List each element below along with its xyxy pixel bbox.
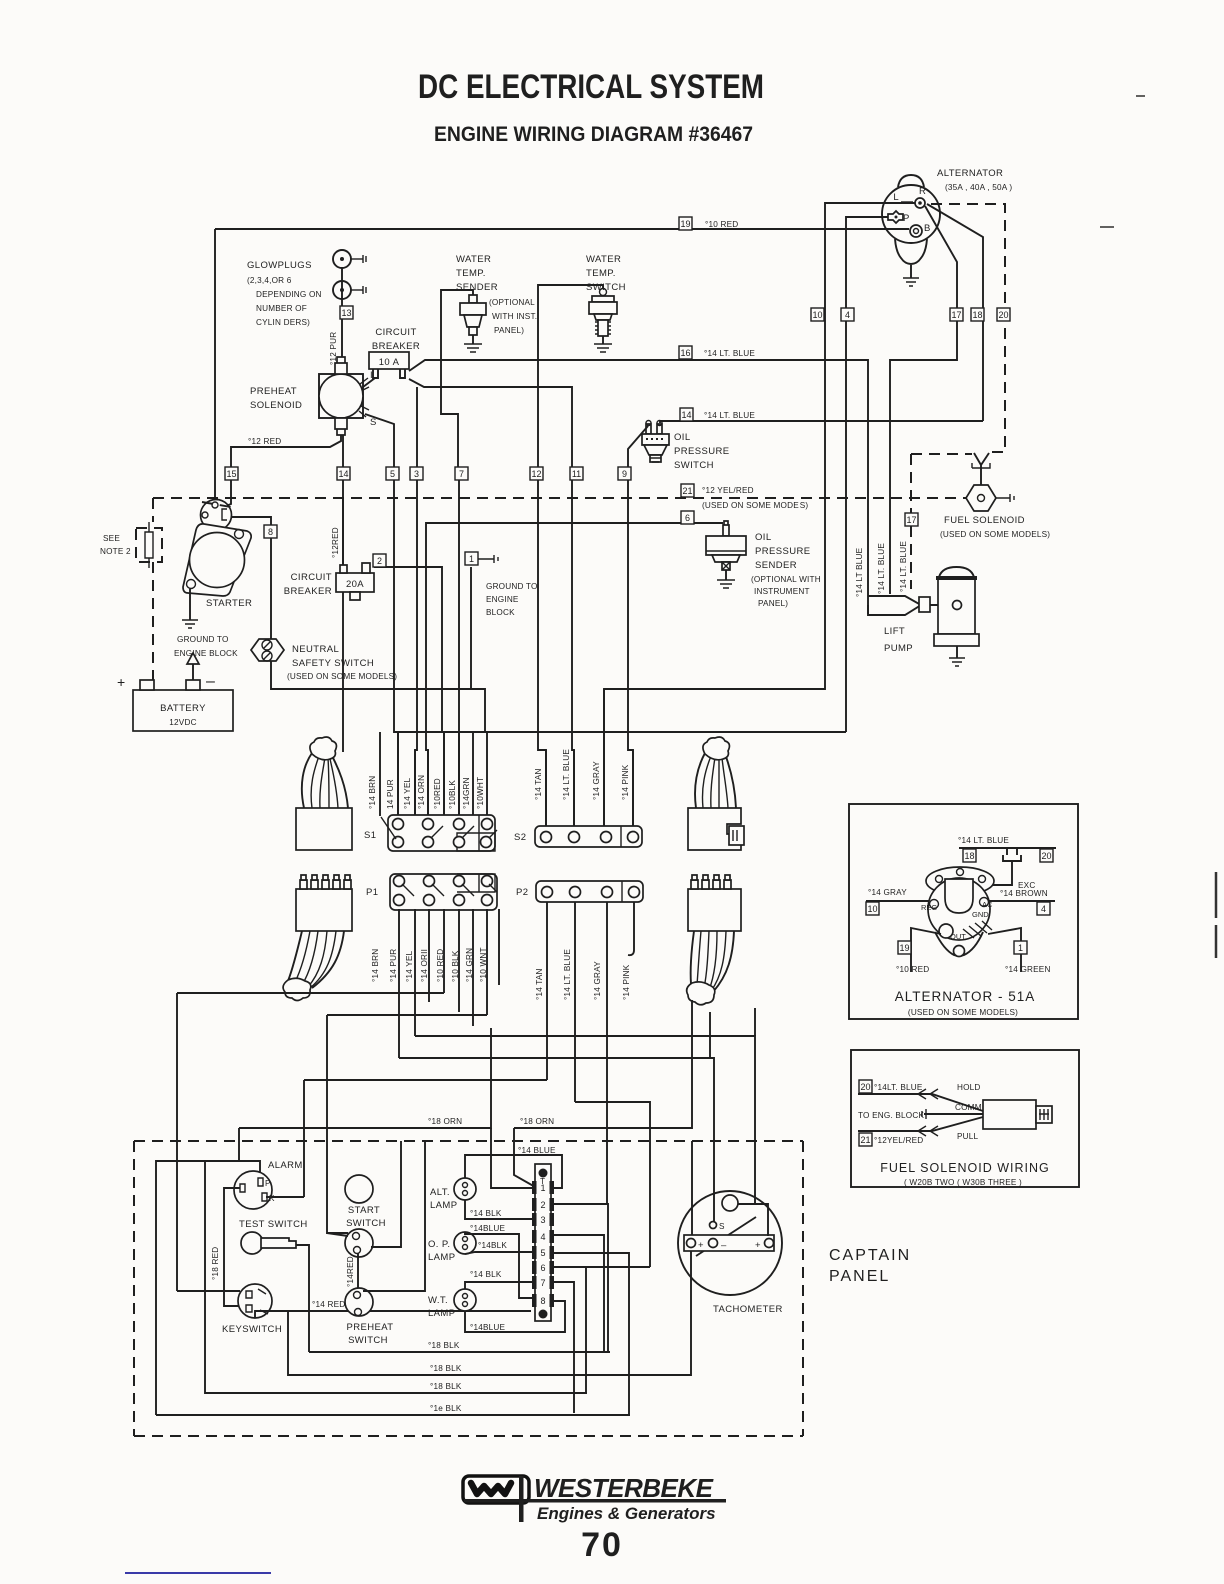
svg-text:°12YEL/RED: °12YEL/RED bbox=[874, 1136, 923, 1145]
tach S terminal bbox=[710, 1222, 717, 1229]
svg-text:°14 GRAY: °14 GRAY bbox=[593, 961, 602, 1000]
svg-text:21: 21 bbox=[860, 1135, 870, 1145]
svg-text:15: 15 bbox=[226, 469, 236, 479]
svg-text:°18 ORN: °18 ORN bbox=[520, 1117, 554, 1126]
wire 9 : switch to S2 pink bbox=[628, 426, 648, 826]
dashed wire 17 vertical bbox=[910, 454, 912, 589]
svg-text:SOLENOID: SOLENOID bbox=[250, 400, 302, 411]
svg-text:PANEL): PANEL) bbox=[758, 599, 788, 608]
box 10 bbox=[811, 308, 824, 321]
leg to preheat I terminal bbox=[363, 378, 375, 387]
svg-text:LIFT: LIFT bbox=[884, 626, 905, 637]
svg-text:(USED ON SOME MODE S): (USED ON SOME MODE S) bbox=[702, 501, 808, 510]
blk line y1415 : outer bbox=[156, 1414, 630, 1416]
wire 16 #14 LT. BLUE : circuit breaker to lift pump bbox=[409, 360, 868, 614]
svg-text:S1: S1 bbox=[364, 830, 376, 841]
svg-text:°14 BLK: °14 BLK bbox=[470, 1209, 502, 1218]
box 13 bbox=[340, 306, 353, 319]
wire t6 riser bbox=[585, 1267, 587, 1393]
solenoid circle bbox=[319, 374, 363, 418]
svg-text:5: 5 bbox=[540, 1248, 545, 1258]
starter motor flange bbox=[183, 524, 251, 596]
alternator bottom tail bbox=[895, 239, 927, 264]
wire #14 TAN bbox=[545, 750, 547, 826]
svg-text:Engines & Generators: Engines & Generators bbox=[537, 1504, 716, 1523]
S1 wires vertical bbox=[380, 732, 487, 816]
svg-text:WESTERBEKE: WESTERBEKE bbox=[534, 1473, 714, 1503]
center notch bbox=[945, 879, 973, 913]
box 7 bbox=[455, 467, 468, 480]
svg-text:+: + bbox=[117, 674, 125, 690]
svg-text:O. P.: O. P. bbox=[428, 1239, 450, 1250]
mounting flange ellipse bbox=[926, 867, 994, 895]
ground connector symbol bbox=[478, 555, 498, 563]
svg-text:R: R bbox=[919, 186, 926, 197]
svg-text:SWITCH: SWITCH bbox=[674, 460, 714, 471]
S2 wires vertical bbox=[546, 689, 633, 826]
op lamp bbox=[428, 1232, 476, 1263]
svg-text:2: 2 bbox=[377, 556, 382, 566]
svg-text:(OPTIONAL WITH: (OPTIONAL WITH bbox=[751, 575, 821, 584]
wire alarm top feed bbox=[156, 1161, 239, 1415]
svg-text:°10RED: °10RED bbox=[433, 778, 442, 809]
water temp sender bbox=[441, 254, 537, 816]
svg-text:WATER: WATER bbox=[586, 254, 621, 265]
tach top circle wire bbox=[738, 1204, 768, 1236]
box 18 bbox=[963, 849, 976, 862]
wire P1-1 down bbox=[398, 909, 400, 1058]
wire start to preheat #14 RED bbox=[357, 1253, 359, 1288]
wire P1-5 down bbox=[458, 909, 460, 1012]
svg-text:°14 PUR: °14 PUR bbox=[389, 949, 398, 982]
wire P1-8 down bbox=[498, 909, 500, 985]
svg-text:L: L bbox=[893, 192, 899, 203]
alternator ground wire bbox=[910, 265, 912, 278]
wire keyswitch branch to tach minus bbox=[288, 1251, 691, 1375]
terminal I ticks bbox=[360, 378, 369, 390]
wire #12RED : 20A up to rail bbox=[342, 498, 344, 565]
wire t5 right bbox=[551, 1253, 629, 1415]
svg-text:FUEL SOLENOID: FUEL SOLENOID bbox=[944, 515, 1025, 526]
svg-text:PANEL): PANEL) bbox=[494, 326, 524, 335]
alternator-51A detail box bbox=[849, 804, 1078, 1019]
wire 18 : alternator stud down to wire 14 bbox=[927, 204, 983, 421]
svg-text:°18 BLK: °18 BLK bbox=[430, 1382, 462, 1391]
wire P1-7 down bbox=[486, 909, 488, 1015]
connector S2 bbox=[514, 826, 642, 847]
box 2 bbox=[373, 554, 386, 567]
maze wire d : tach sender feed bbox=[399, 1058, 714, 1222]
svg-text:NEUTRAL: NEUTRAL bbox=[292, 644, 339, 655]
svg-text:°1е BLK: °1е BLK bbox=[430, 1404, 462, 1413]
S2 wire labels bbox=[534, 749, 630, 800]
glowplugs bbox=[247, 250, 366, 365]
svg-text:P2: P2 bbox=[516, 887, 528, 898]
svg-text:PRESSURE: PRESSURE bbox=[755, 546, 810, 557]
svg-text:(OPTIONAL: (OPTIONAL bbox=[489, 298, 535, 307]
svg-text:ENGINE WIRING DIAGRAM #36467: ENGINE WIRING DIAGRAM #36467 bbox=[434, 123, 753, 146]
svg-text:4: 4 bbox=[1041, 904, 1046, 914]
EXC connector and wire bbox=[1003, 848, 1021, 861]
box 3 bbox=[410, 467, 423, 480]
wire P2 pink down with end hook bbox=[628, 902, 634, 955]
svg-text:8: 8 bbox=[268, 527, 273, 537]
wire 12 : switch to S2 tan bbox=[538, 285, 603, 826]
svg-text:°14 GRAY: °14 GRAY bbox=[592, 761, 601, 800]
sender base bbox=[712, 555, 740, 562]
comm wire bbox=[924, 1113, 983, 1115]
svg-text:DEPENDING ON: DEPENDING ON bbox=[256, 290, 322, 299]
dashed wire crossing solenoid bbox=[202, 502, 231, 507]
svg-text:GROUND TO: GROUND TO bbox=[177, 635, 229, 644]
battery ground arrow up bbox=[192, 664, 194, 680]
box 20 bbox=[997, 308, 1010, 321]
wire 7 : sender to S1 blk bbox=[441, 290, 473, 816]
wire stub switch right pin up to wire 14 bbox=[659, 421, 661, 423]
wire #14 GRN bbox=[472, 732, 474, 816]
svg-text:°14 LT. BLUE: °14 LT. BLUE bbox=[899, 541, 908, 592]
tachometer bbox=[678, 1191, 783, 1315]
svg-text:6: 6 bbox=[540, 1263, 545, 1273]
wire #14 BROWN from AC bbox=[989, 900, 1055, 902]
svg-text:°14 LT BLUE: °14 LT BLUE bbox=[855, 547, 864, 597]
svg-text:PULL: PULL bbox=[957, 1132, 979, 1141]
wire 14 #14 LT. BLUE : oil pressure switch to wire 18 bbox=[660, 420, 983, 422]
lift pump connector bbox=[919, 597, 930, 612]
svg-text:1: 1 bbox=[1018, 943, 1023, 953]
wire t7 right bbox=[551, 1282, 574, 1413]
preheat switch bbox=[345, 1288, 393, 1346]
svg-text:STARTER: STARTER bbox=[206, 598, 252, 609]
svg-text:°14 TAN: °14 TAN bbox=[534, 768, 543, 800]
svg-text:GND: GND bbox=[972, 910, 989, 919]
svg-text:4: 4 bbox=[540, 1232, 545, 1242]
starter solenoid bbox=[201, 500, 232, 531]
svg-text:20: 20 bbox=[860, 1082, 870, 1092]
svg-text:7: 7 bbox=[459, 469, 464, 479]
wire 6 : oil pressure sender to S1 orn bbox=[426, 523, 723, 816]
svg-text:(USED ON SOME MODELS): (USED ON SOME MODELS) bbox=[908, 1008, 1018, 1017]
fuel solenoid hexagon bbox=[966, 485, 996, 511]
wire #10 WHT bbox=[486, 732, 488, 816]
svg-text:°18 BLK: °18 BLK bbox=[430, 1364, 462, 1373]
svg-text:°14 GREEN: °14 GREEN bbox=[1005, 965, 1051, 974]
maze wire e : alarm to P2 tan bbox=[304, 1079, 547, 1081]
maze wire g : #18 ORN left bbox=[239, 1028, 491, 1128]
logo underline bbox=[464, 1499, 726, 1503]
box 17 bbox=[950, 308, 963, 321]
svg-text:PREHEAT: PREHEAT bbox=[250, 386, 297, 397]
svg-text:NOTE 2: NOTE 2 bbox=[100, 547, 131, 556]
svg-text:°18 ORN: °18 ORN bbox=[428, 1117, 462, 1126]
stray mark top right bbox=[1100, 226, 1114, 228]
neutral safety switch bbox=[251, 639, 397, 681]
svg-text:(USED ON SOME MODELS): (USED ON SOME MODELS) bbox=[287, 672, 397, 681]
svg-text:SAFETY SWITCH: SAFETY SWITCH bbox=[292, 658, 374, 669]
water temp switch bbox=[530, 254, 626, 826]
harness bottom left bbox=[283, 875, 352, 1001]
svg-text:CIRCUIT: CIRCUIT bbox=[291, 572, 332, 583]
svg-text:18: 18 bbox=[964, 851, 974, 861]
svg-text:°14 LT. BLUE: °14 LT. BLUE bbox=[704, 349, 755, 358]
svg-text:–: – bbox=[206, 673, 215, 690]
svg-text:20A: 20A bbox=[346, 579, 364, 590]
wire op lamp blue to t8 bbox=[465, 1232, 536, 1298]
svg-text:°14 LT. BLUE: °14 LT. BLUE bbox=[562, 749, 571, 800]
svg-text:°14BLUE: °14BLUE bbox=[470, 1323, 506, 1332]
switch pins bbox=[646, 424, 662, 434]
wire 15 #12 RED : solenoid S to starter solenoid bbox=[218, 435, 341, 509]
S1 wire labels bbox=[368, 775, 485, 809]
wire t2 to 18 blk line bbox=[551, 1204, 608, 1352]
svg-text:3: 3 bbox=[540, 1215, 545, 1225]
svg-text:21: 21 bbox=[682, 486, 692, 496]
svg-text:ALTERNATOR: ALTERNATOR bbox=[937, 168, 1003, 179]
wire 3 : to S1 yel bbox=[415, 387, 417, 816]
wires below P2 bbox=[547, 902, 634, 1204]
svg-text:KEYSWITCH: KEYSWITCH bbox=[222, 1324, 282, 1335]
fuel solenoid bbox=[905, 453, 1050, 589]
svg-text:COMM: COMM bbox=[955, 1103, 982, 1112]
svg-text:17: 17 bbox=[906, 515, 916, 525]
circuit breaker 20A bbox=[284, 563, 374, 600]
svg-text:11: 11 bbox=[572, 469, 581, 479]
svg-text:INSTRUMENT: INSTRUMENT bbox=[754, 587, 810, 596]
REG terminal bbox=[930, 900, 939, 909]
box 5 bbox=[386, 467, 399, 480]
captain panel dashed border bbox=[134, 1141, 803, 1436]
svg-text:PREHEAT: PREHEAT bbox=[347, 1322, 394, 1333]
see note 2 dashed fuse bbox=[100, 522, 162, 568]
wire alarm right up bbox=[266, 1196, 304, 1198]
sender ground bbox=[725, 570, 727, 580]
oil pressure switch bbox=[618, 421, 729, 827]
alternator top ear bbox=[898, 175, 924, 187]
wire P1-2 down bbox=[414, 909, 416, 1036]
harness top left bundle bbox=[296, 737, 352, 850]
svg-text:°14 PINK: °14 PINK bbox=[622, 964, 631, 1000]
maze wire j : harness to wire c bbox=[754, 1008, 756, 1036]
box 8 bbox=[264, 525, 277, 538]
wire #14 GRAY to REG bbox=[866, 900, 929, 902]
svg-text:12VDC: 12VDC bbox=[169, 718, 196, 727]
svg-text:SENDER: SENDER bbox=[755, 560, 797, 571]
wt lamp bbox=[428, 1289, 476, 1319]
wire 21 dashed #12 YEL/RED : starter rail to fuel solenoid bbox=[153, 497, 966, 499]
wire P2 lt blue down bbox=[574, 902, 576, 1102]
wire 14 main : solenoid to harness bbox=[342, 435, 344, 752]
svg-text:PRESSURE: PRESSURE bbox=[674, 446, 729, 457]
fuel solenoid wiring detail box bbox=[851, 1050, 1079, 1187]
sender body bbox=[706, 536, 746, 555]
starter motor body bbox=[190, 533, 245, 588]
svg-text:REG: REG bbox=[921, 903, 937, 912]
sender pin bbox=[723, 521, 729, 536]
svg-text:°14 TAN: °14 TAN bbox=[535, 968, 544, 1000]
terminal stud L/R bbox=[915, 198, 925, 208]
wire alt lamp blue loop to t1 bbox=[465, 1155, 562, 1188]
svg-text:BREAKER: BREAKER bbox=[284, 586, 332, 597]
blue scan line bbox=[125, 1572, 271, 1574]
svg-text:( W20B TWO ( W30B THREE ): ( W20B TWO ( W30B THREE ) bbox=[904, 1178, 1022, 1187]
box 12 bbox=[530, 467, 543, 480]
svg-text:(USED ON SOME MODELS): (USED ON SOME MODELS) bbox=[940, 530, 1050, 539]
solenoid body bbox=[983, 1100, 1036, 1129]
box 20 bbox=[1040, 849, 1053, 862]
svg-text:10: 10 bbox=[867, 904, 877, 914]
svg-text:ENGINE BLOCK: ENGINE BLOCK bbox=[174, 649, 238, 658]
svg-text:W.T.: W.T. bbox=[428, 1295, 448, 1306]
svg-text:70: 70 bbox=[581, 1526, 623, 1564]
P1 wire labels below bbox=[371, 947, 488, 982]
battery posts bbox=[140, 680, 154, 690]
svg-text:°14 BROWN: °14 BROWN bbox=[1000, 889, 1048, 898]
svg-text:8: 8 bbox=[540, 1296, 545, 1306]
svg-text:P: P bbox=[265, 1179, 271, 1188]
wire #14 GRAY bbox=[603, 689, 605, 826]
wire #10 BLK bbox=[458, 732, 460, 816]
switch ground bbox=[602, 336, 604, 344]
svg-text:S: S bbox=[719, 1222, 725, 1231]
svg-text:ENGINE: ENGINE bbox=[486, 595, 519, 604]
AC terminal bbox=[980, 898, 989, 907]
svg-text:°10 RED: °10 RED bbox=[705, 220, 738, 229]
svg-text:CIRCUIT: CIRCUIT bbox=[375, 327, 416, 338]
wire start switch right bbox=[371, 1141, 401, 1247]
wire #14 PINK bbox=[632, 750, 634, 826]
box 20 bbox=[859, 1080, 872, 1093]
svg-text:SWITCH: SWITCH bbox=[346, 1218, 386, 1229]
wire into tach bar from maze bbox=[691, 1141, 693, 1235]
wire 20 dashed #14 LT BLUE : alternator stud to fuel solenoid hold bbox=[931, 204, 1005, 452]
box 6 bbox=[681, 511, 694, 524]
svg-text:°14 BRN: °14 BRN bbox=[371, 949, 380, 982]
svg-text:GROUND TO: GROUND TO bbox=[486, 582, 538, 591]
svg-text:°14 LT. BLUE: °14 LT. BLUE bbox=[704, 411, 755, 420]
svg-text:9: 9 bbox=[622, 469, 627, 479]
hold arrow bbox=[918, 1089, 938, 1099]
svg-text:CAPTAIN: CAPTAIN bbox=[829, 1247, 911, 1264]
svg-text:I: I bbox=[370, 370, 373, 381]
maze wire a : keyswitch feed bbox=[177, 992, 444, 994]
svg-text:14: 14 bbox=[338, 469, 348, 479]
wire #14 YEL bbox=[414, 750, 416, 816]
terminal B bbox=[910, 225, 922, 237]
svg-text:SWITCH: SWITCH bbox=[348, 1335, 388, 1346]
svg-text:FUEL SOLENOID WIRING: FUEL SOLENOID WIRING bbox=[880, 1161, 1050, 1175]
svg-text:2: 2 bbox=[540, 1200, 545, 1210]
S1 internal links bbox=[381, 817, 497, 839]
alternator body circle bbox=[882, 185, 940, 243]
svg-text:P1: P1 bbox=[366, 887, 378, 898]
body circle bbox=[928, 878, 990, 940]
wire into panel x490 bbox=[491, 1128, 536, 1188]
test switch bbox=[239, 1219, 308, 1254]
svg-text:°14 BRN: °14 BRN bbox=[368, 776, 377, 809]
svg-text:K: K bbox=[269, 1194, 275, 1203]
svg-text:LAMP: LAMP bbox=[428, 1252, 455, 1263]
svg-text:SENDER: SENDER bbox=[456, 282, 498, 293]
svg-text:°10BLK: °10BLK bbox=[448, 780, 457, 809]
terminal tabs 1-8 bbox=[532, 1181, 554, 1307]
svg-text:WATER: WATER bbox=[456, 254, 491, 265]
svg-text:19: 19 bbox=[680, 219, 690, 229]
svg-text:NUMBER OF: NUMBER OF bbox=[256, 304, 307, 313]
alarm bbox=[234, 1160, 303, 1209]
wire P1-6 down bbox=[472, 909, 474, 1026]
box 9 bbox=[618, 467, 631, 480]
wire t6 right bbox=[551, 1266, 650, 1268]
wire 17 : alternator stud to lift pump bbox=[890, 206, 957, 594]
maze wire i : harness to tach top bbox=[709, 1012, 711, 1058]
bottom taper bbox=[935, 932, 983, 956]
svg-text:13: 13 bbox=[341, 308, 351, 318]
alternator 51A drawing bbox=[921, 867, 994, 957]
wire 4 #14 BROWN : alternator P to S1 bus bbox=[846, 217, 891, 732]
terminal strip bbox=[532, 1164, 554, 1321]
wire 2 : 20A to S1 red bbox=[374, 567, 444, 816]
svg-text:12: 12 bbox=[531, 469, 541, 479]
maze wire c : tach feed bbox=[415, 1036, 755, 1204]
svg-text:°14 BLK: °14 BLK bbox=[470, 1270, 502, 1279]
svg-text:OIL: OIL bbox=[674, 432, 691, 443]
hold wire bbox=[858, 1094, 983, 1111]
alt lamp bbox=[430, 1178, 476, 1211]
svg-text:°14 YEL: °14 YEL bbox=[405, 950, 414, 982]
wire alt lamp blk to t3 bbox=[465, 1200, 536, 1219]
svg-text:4: 4 bbox=[845, 310, 850, 320]
wire P1-4 down bbox=[443, 909, 445, 993]
svg-text:14: 14 bbox=[681, 410, 691, 420]
svg-text:+: + bbox=[698, 1240, 704, 1251]
wire keyswitch to preheat #14 RED bbox=[255, 1311, 531, 1318]
svg-text:°18 RED: °18 RED bbox=[211, 1247, 220, 1280]
svg-text:°14RED: °14RED bbox=[346, 1256, 355, 1287]
svg-text:OIL: OIL bbox=[755, 532, 772, 543]
GND hatch bbox=[963, 921, 992, 938]
box 19 bbox=[679, 217, 692, 230]
svg-text:°14 YEL: °14 YEL bbox=[403, 777, 412, 809]
wire t4 right bbox=[551, 1235, 604, 1352]
svg-text:°14 ORN: °14 ORN bbox=[417, 775, 426, 809]
svg-text:10 A: 10 A bbox=[379, 357, 400, 368]
svg-text:20: 20 bbox=[998, 310, 1008, 320]
svg-text:°14GRN: °14GRN bbox=[462, 777, 471, 809]
harness bottom right bbox=[687, 875, 741, 1005]
wire P2 tan down bbox=[546, 902, 548, 1080]
svg-text:OUT: OUT bbox=[950, 932, 966, 941]
solenoid square bbox=[319, 374, 363, 418]
maze wire h : #18 ORN right bbox=[514, 1000, 692, 1128]
svg-text:°12 YEL/RED: °12 YEL/RED bbox=[702, 486, 754, 495]
box 14 row bbox=[337, 467, 350, 480]
box 16 bbox=[679, 346, 692, 359]
wire keyswitch left feed bbox=[177, 1290, 240, 1292]
wire #14 GREEN from GND bbox=[988, 928, 1021, 972]
svg-text:TACHOMETER: TACHOMETER bbox=[713, 1304, 783, 1315]
svg-text:1: 1 bbox=[540, 1183, 545, 1193]
wire alarm left to keyswitch bbox=[224, 1188, 240, 1306]
tach needle bbox=[696, 1217, 756, 1256]
alternator (35A,40A,50A) bbox=[882, 168, 1012, 286]
svg-text:°14 ORII: °14 ORII bbox=[420, 949, 429, 982]
glowplug 2 bbox=[333, 281, 351, 299]
svg-text:17: 17 bbox=[951, 310, 961, 320]
svg-text:5: 5 bbox=[390, 469, 395, 479]
svg-text:°10WHT: °10WHT bbox=[476, 777, 485, 809]
bus wire y=732 : S1 top bus bbox=[394, 731, 846, 733]
svg-text:–: – bbox=[721, 1240, 727, 1251]
